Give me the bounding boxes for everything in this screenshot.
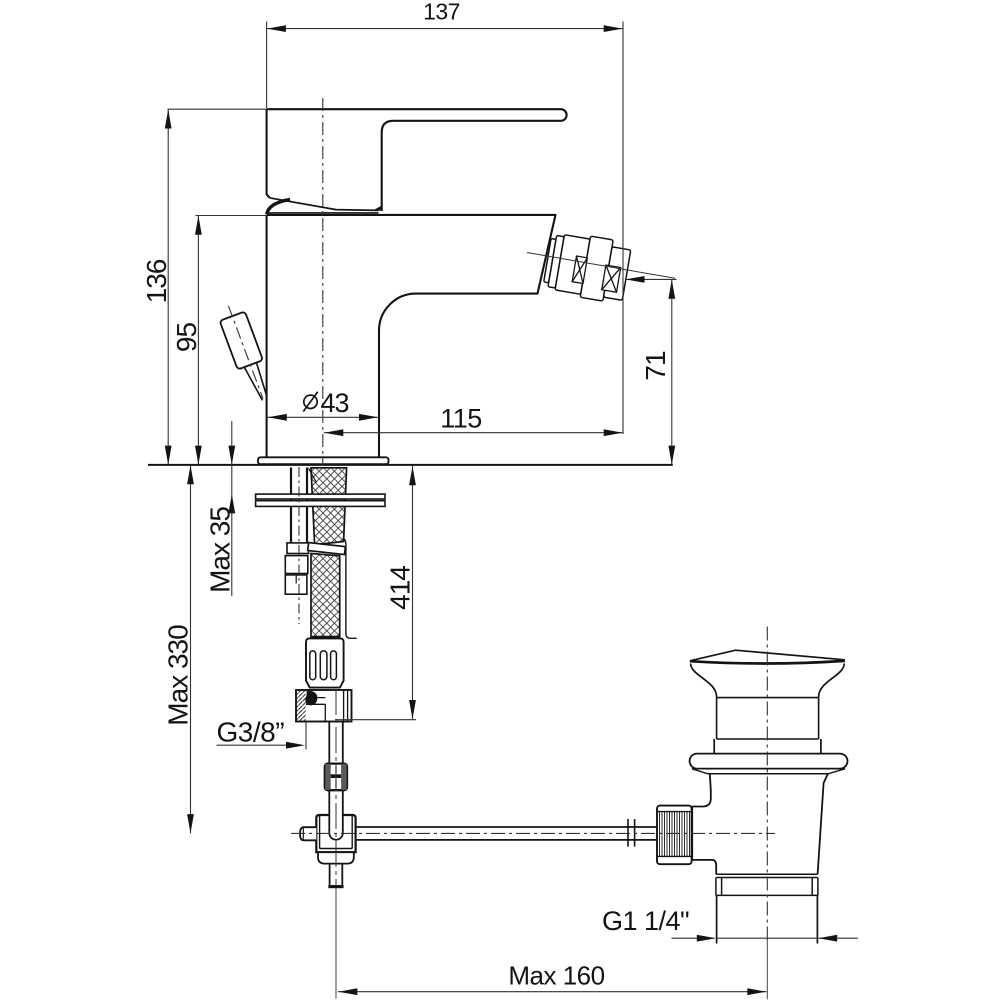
base flange bbox=[258, 457, 389, 464]
bracket stub bbox=[330, 864, 343, 886]
aerator assembly bbox=[542, 230, 632, 305]
cap flare bbox=[691, 664, 845, 698]
hose crimp band bbox=[308, 543, 346, 555]
dim diameter 43 bbox=[268, 416, 379, 418]
dim Max 35 bbox=[231, 421, 233, 596]
side port face bbox=[691, 806, 693, 860]
lever handle (horizontal position) bbox=[267, 109, 567, 211]
joint mark 2 bbox=[602, 265, 621, 292]
dim 71 bbox=[625, 278, 677, 280]
nut o-ring blob bbox=[305, 691, 317, 706]
svg-text:137: 137 bbox=[423, 0, 460, 25]
hose top wedge line bbox=[309, 468, 317, 482]
knurled coupling nut bbox=[657, 806, 692, 865]
svg-text:Max 160: Max 160 bbox=[508, 961, 604, 991]
svg-text:71: 71 bbox=[640, 351, 671, 381]
waste body left bbox=[692, 774, 716, 875]
rod joint sleeve bbox=[628, 819, 635, 847]
svg-text:115: 115 bbox=[440, 404, 482, 434]
aerator end ring bbox=[604, 247, 631, 300]
dim 414 bbox=[335, 719, 416, 721]
svg-text:95: 95 bbox=[171, 323, 202, 353]
dim Max 160 bbox=[338, 991, 767, 993]
sleeve slot 3 bbox=[331, 651, 337, 680]
faucet body outline bbox=[267, 215, 556, 457]
centerline drain bbox=[766, 627, 768, 941]
stud sleeve 2 bbox=[285, 556, 308, 574]
supply hose lower segment bbox=[311, 554, 340, 637]
handle left edge bbox=[267, 109, 270, 198]
aerator axis thin line bbox=[527, 253, 675, 279]
svg-text:G3/8”: G3/8” bbox=[217, 717, 285, 748]
stud nut 1 bbox=[287, 543, 309, 554]
dim 115 bbox=[324, 432, 623, 434]
G3/8 hose nut bbox=[296, 690, 352, 722]
svg-text:43: 43 bbox=[321, 388, 349, 418]
side lever (rotated position) bbox=[216, 301, 276, 405]
skirt right wedge bbox=[373, 206, 382, 211]
rod end nub bbox=[300, 827, 316, 840]
mounting stud bbox=[291, 468, 307, 544]
waste flange bbox=[690, 754, 848, 769]
centerline faucet bbox=[322, 98, 324, 466]
waste tailpipe bbox=[717, 895, 818, 943]
mounting nut plate bbox=[256, 501, 385, 507]
centerline pop-up rod bbox=[335, 689, 337, 886]
svg-text:414: 414 bbox=[385, 566, 416, 610]
waste gasket bbox=[692, 769, 845, 774]
sleeve slot 1 bbox=[310, 651, 316, 680]
skirt bottom double line bbox=[267, 212, 379, 214]
dim 95 bbox=[196, 215, 267, 217]
svg-text:136: 136 bbox=[141, 259, 172, 303]
handle skirt slant edge bbox=[270, 198, 379, 211]
stud sleeve 3 bbox=[285, 575, 307, 594]
svg-text:Max 35: Max 35 bbox=[205, 507, 236, 593]
dim 136 bbox=[168, 108, 267, 110]
supply hose upper segment bbox=[311, 468, 347, 545]
svg-text:G1 1/4": G1 1/4" bbox=[602, 906, 689, 936]
cartridge dome thick arc bbox=[267, 199, 290, 214]
centerline linkage rod bbox=[291, 832, 775, 834]
dim Max 330 bbox=[190, 465, 192, 834]
joint mark 1 bbox=[572, 256, 587, 283]
cap rim thick bbox=[690, 661, 845, 664]
aerator barrel 2 bbox=[580, 236, 613, 301]
horizontal linkage rod bbox=[356, 827, 657, 840]
waste shoulder line bbox=[716, 874, 817, 877]
aerator barrel 1 bbox=[555, 235, 590, 295]
waste thread bbox=[716, 878, 818, 896]
hose outer right line bbox=[344, 539, 357, 639]
centerline stud bbox=[298, 467, 300, 624]
pivot clevis bracket bbox=[316, 815, 355, 852]
rod adjuster knob bbox=[325, 764, 347, 791]
sleeve slot 2 bbox=[320, 651, 327, 680]
svg-text:Max 330: Max 330 bbox=[163, 625, 194, 726]
pop-up rod bbox=[329, 722, 343, 840]
waste neck bbox=[717, 697, 819, 739]
dim G1 1/4 line bbox=[672, 937, 715, 939]
bracket shoulder bbox=[318, 852, 354, 863]
hose end sleeve bbox=[306, 638, 344, 687]
waste body right bbox=[818, 774, 828, 875]
countertop line bbox=[148, 464, 673, 466]
aerator mount ring bbox=[544, 239, 556, 283]
horseshoe washer bbox=[256, 494, 385, 499]
dim 137 bbox=[267, 22, 623, 435]
pop-up waste cap top bbox=[690, 650, 845, 661]
